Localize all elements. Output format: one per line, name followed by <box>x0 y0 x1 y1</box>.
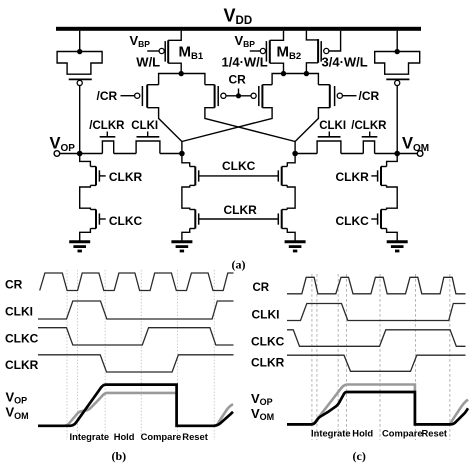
ground center-left <box>171 240 192 243</box>
grid dash c2 <box>316 274 318 440</box>
MB2 source wire <box>270 31 284 41</box>
wire left cap gate to VOP rail <box>79 86 81 154</box>
wire between center-left transistors <box>182 185 190 209</box>
wire rail to left cap <box>79 31 81 52</box>
left latch tub M1 top <box>159 74 205 85</box>
transistor CLKR center-right <box>282 209 288 211</box>
waveform CR (b) <box>40 273 234 291</box>
right latch tub M2 top <box>272 74 318 85</box>
left cap gate bar <box>69 78 92 80</box>
svg-text:Reset: Reset <box>182 431 208 442</box>
svg-text:/CR: /CR <box>97 89 118 103</box>
node dot VOP-cap <box>77 151 83 157</box>
svg-text:CLKI: CLKI <box>252 307 280 321</box>
svg-text:CR: CR <box>229 73 247 87</box>
svg-text:CLKI: CLKI <box>5 305 33 319</box>
grid dash c4 <box>346 274 348 440</box>
svg-text:1/4·W/L: 1/4·W/L <box>222 55 268 70</box>
svg-text:Hold: Hold <box>352 428 373 439</box>
node dot right cap top <box>395 49 400 54</box>
svg-text:CLKC: CLKC <box>336 214 370 228</box>
CR center-left drain cross wire to VOM node <box>205 108 295 154</box>
capacitor PMOS cap left (tub) <box>57 52 102 75</box>
outer-left stack wire top <box>80 154 91 167</box>
svg-text:Reset: Reset <box>422 428 448 439</box>
VOP rail wires <box>60 153 103 155</box>
center-right chain wire top <box>287 154 295 167</box>
ground outer-right <box>387 240 408 243</box>
svg-text:(a): (a) <box>232 258 246 272</box>
svg-text:(b): (b) <box>112 449 127 463</box>
ground center-right <box>285 240 306 243</box>
waveform CR (c) <box>287 277 466 294</box>
ground outer-left <box>69 240 90 243</box>
/CR left drain to VOP node <box>147 108 182 154</box>
grid dash c3 <box>337 274 339 440</box>
MB1 drain wire <box>168 63 181 73</box>
svg-text:CR: CR <box>5 277 23 291</box>
svg-text:W/L: W/L <box>136 55 160 70</box>
node dot VOM latch <box>292 151 298 157</box>
MB1 gate bar <box>164 41 166 62</box>
svg-text:Integrate: Integrate <box>70 431 110 442</box>
svg-text:CR: CR <box>253 282 270 294</box>
transistor CLKC center-left <box>190 166 196 168</box>
svg-text:CLKC: CLKC <box>5 331 39 345</box>
right cap gate bubble <box>395 80 400 85</box>
node dot VOP latch <box>179 151 185 157</box>
svg-text:Integrate: Integrate <box>311 428 351 439</box>
waveform CLKR (c) <box>287 355 466 371</box>
wire outer-left to ground <box>80 229 91 241</box>
waveform CLKI (c) <box>287 304 466 321</box>
svg-text:CLKR: CLKR <box>224 203 258 217</box>
bias3 gate bubble <box>324 48 329 53</box>
svg-text:Compare: Compare <box>382 428 423 439</box>
svg-text:CLKC: CLKC <box>109 214 143 228</box>
wire right cap gate to VOM rail <box>396 86 398 154</box>
transistor CR center-left <box>205 84 215 86</box>
grid dash c5 <box>379 274 381 440</box>
grid dash b3 <box>104 270 106 440</box>
bias3 channel <box>317 39 319 63</box>
svg-text:CLKI: CLKI <box>131 120 158 132</box>
svg-text:CLKR: CLKR <box>5 358 39 372</box>
waveform VOP black (c) <box>287 392 468 424</box>
node dot VOM-cap <box>394 151 400 157</box>
svg-text:/CLKR: /CLKR <box>89 120 125 132</box>
wire between outer-right transistors <box>387 185 398 209</box>
svg-text:CLKC: CLKC <box>251 335 285 349</box>
grid dash b6 <box>213 270 215 440</box>
waveform CLKR (b) <box>38 355 234 372</box>
svg-text:/CLKR: /CLKR <box>351 120 387 132</box>
bias3 gate bar <box>320 41 322 62</box>
svg-text:CLKI: CLKI <box>319 120 346 132</box>
waveform CLKC (b) <box>38 328 234 345</box>
waveform VOM gray (b) <box>38 393 233 426</box>
svg-text:CLKR: CLKR <box>109 170 143 184</box>
svg-text:(c): (c) <box>353 449 366 463</box>
wire rail to right cap <box>396 31 398 52</box>
grid dash c1 <box>311 274 313 440</box>
wire outer-right to ground <box>387 229 398 241</box>
node dot left cap top <box>77 49 82 54</box>
MB2 gate wire <box>250 50 260 52</box>
svg-text:3/4·W/L: 3/4·W/L <box>322 55 368 70</box>
waveform VOP black (b) <box>38 385 233 426</box>
wire between center-right transistors <box>287 185 295 209</box>
outer-right stack wire top <box>387 154 398 167</box>
node dot MB1 drain <box>179 71 184 76</box>
svg-text:/CR: /CR <box>359 89 380 103</box>
MB2 channel <box>269 40 271 63</box>
center-left chain wire top <box>182 154 190 167</box>
wire center-left to ground <box>182 229 190 241</box>
grid dash c6 <box>415 274 417 440</box>
waveform VOM gray (c) <box>287 385 468 425</box>
CR center-right drain cross wire to VOP node <box>182 108 272 142</box>
waveform CLKC (c) <box>287 330 466 347</box>
node dot CR <box>236 93 241 98</box>
MB2 gate bar <box>265 41 267 62</box>
svg-text:Compare: Compare <box>141 431 182 442</box>
grid dash b4 <box>140 270 142 440</box>
bias3 source wire <box>306 31 318 40</box>
node dot MB2 drain <box>281 71 286 76</box>
VDD rail <box>56 27 421 31</box>
right cap gate bar <box>386 78 409 80</box>
MB2 gate bubble <box>260 48 265 53</box>
waveform CLKI (b) <box>38 301 234 319</box>
grid dash b5 <box>177 270 179 440</box>
wire center-right to ground <box>287 229 295 241</box>
MB1 source wire <box>168 31 181 41</box>
MB1 gate bubble <box>159 48 164 53</box>
wire between outer-left transistors <box>80 185 91 209</box>
VOM rail wires <box>375 153 418 155</box>
svg-text:CLKR: CLKR <box>251 356 285 370</box>
grid dash b1 <box>66 270 68 440</box>
left cap gate bubble <box>77 80 82 85</box>
MB1 channel <box>167 40 169 63</box>
grid dash c7 <box>449 274 451 440</box>
MB2 drain wire <box>270 63 284 73</box>
MB1 gate wire <box>147 50 159 52</box>
node dot bias3 drain <box>304 71 309 76</box>
svg-text:Hold: Hold <box>114 431 135 442</box>
bias3 gate wire to VDD <box>329 31 341 51</box>
capacitor PMOS cap right (tub) <box>375 52 420 75</box>
transistor CR center-right <box>262 84 272 86</box>
svg-text:CLKC: CLKC <box>222 159 256 173</box>
transistor CLKC center-right <box>282 166 288 168</box>
transistor CLKR center-left <box>190 209 196 211</box>
svg-text:CLKR: CLKR <box>336 170 370 184</box>
/CR right drain to VOM node <box>295 108 330 142</box>
grid dash b2 <box>77 270 79 440</box>
bias3 drain wire <box>306 63 318 74</box>
